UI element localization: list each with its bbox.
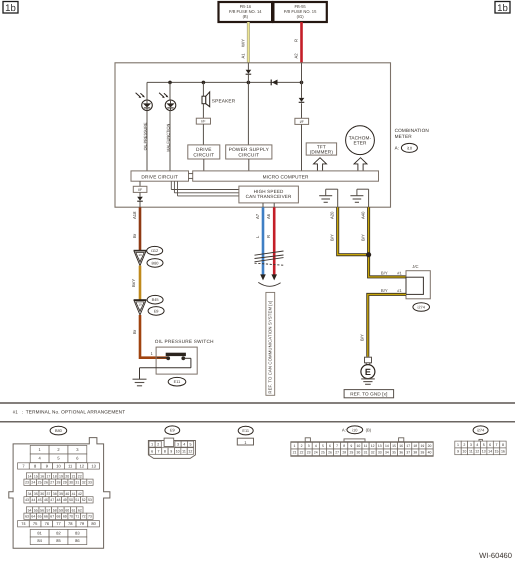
svg-text:3: 3	[470, 443, 472, 447]
link drive circuit to micro computer	[189, 174, 193, 179]
svg-text:16: 16	[40, 474, 44, 478]
svg-text:45: 45	[38, 498, 42, 502]
svg-text:66: 66	[44, 515, 48, 519]
svg-text:HIGH SPEED: HIGH SPEED	[254, 189, 284, 194]
wire speaker to I/F	[202, 104, 204, 119]
svg-text:75: 75	[33, 521, 38, 526]
junction connector box	[406, 271, 430, 299]
oval i274	[413, 303, 430, 312]
svg-text:73: 73	[88, 515, 92, 519]
separator line lower	[0, 421, 515, 423]
node bus-A1	[247, 81, 251, 85]
svg-text:A18: A18	[132, 211, 137, 219]
svg-text:5: 5	[322, 444, 324, 448]
switch ground	[133, 368, 147, 386]
svg-text:48: 48	[57, 498, 61, 502]
wire R (CAN high) pin A6	[273, 207, 276, 274]
svg-text:28: 28	[342, 451, 346, 455]
node bus-speaker	[202, 81, 206, 85]
svg-text:33: 33	[88, 481, 92, 485]
connector i10 pinout	[291, 426, 433, 456]
svg-text:J/C: J/C	[412, 264, 418, 269]
svg-text:5: 5	[190, 442, 192, 446]
svg-text:E11: E11	[242, 428, 249, 433]
twisted pair symbol	[255, 251, 284, 265]
svg-text:DRIVE: DRIVE	[196, 147, 212, 153]
svg-text:68: 68	[57, 515, 61, 519]
wire to junction connector	[369, 255, 406, 277]
svg-text:42: 42	[78, 492, 82, 496]
svg-text:19: 19	[421, 444, 425, 448]
oval B45	[147, 295, 163, 304]
ref to GND box	[344, 390, 394, 398]
wire W/Y from fuse 14 to meter pin A1	[247, 22, 250, 63]
oil pressure warning LED column wire	[146, 82, 148, 170]
svg-text:15: 15	[392, 444, 396, 448]
svg-text:13: 13	[91, 463, 96, 468]
svg-text:R: R	[266, 235, 271, 238]
svg-text:Br: Br	[132, 329, 137, 334]
svg-text:4: 4	[183, 442, 185, 446]
svg-text:WI-60460: WI-60460	[479, 551, 512, 560]
svg-text::: :	[22, 409, 23, 414]
connector B80 pinout	[9, 426, 110, 548]
svg-text:6: 6	[151, 449, 153, 453]
svg-text:#1: #1	[397, 270, 402, 275]
svg-text:44: 44	[31, 498, 35, 502]
svg-text:23: 23	[307, 451, 311, 455]
svg-text:Br/Y: Br/Y	[131, 279, 136, 287]
svg-text:B45: B45	[152, 297, 159, 302]
svg-text:OIL PRESSURE SWITCH: OIL PRESSURE SWITCH	[155, 339, 214, 344]
wire Br pin A18	[139, 207, 142, 250]
internal ground (A40)	[350, 189, 368, 207]
connector E9 pinout	[148, 426, 195, 458]
svg-text:61: 61	[72, 508, 76, 512]
svg-text:69: 69	[63, 515, 67, 519]
power supply circuit box	[226, 145, 272, 159]
svg-text:8: 8	[502, 443, 504, 447]
TFT (DIMMER) box	[306, 143, 336, 155]
arrow micro computer to TFT	[314, 158, 327, 171]
svg-text:21: 21	[293, 451, 297, 455]
svg-text:26: 26	[44, 481, 48, 485]
svg-text:29: 29	[349, 451, 353, 455]
svg-text:REF. TO CAN COMMUNICATION SYST: REF. TO CAN COMMUNICATION SYSTEM [x]	[268, 301, 273, 394]
svg-text:7: 7	[158, 449, 160, 453]
fuse box FB-18 F/B FUSE NO. 14	[219, 2, 273, 22]
svg-text:CIRCUIT: CIRCUIT	[193, 153, 214, 159]
ground terminal E	[361, 357, 375, 384]
svg-text:86: 86	[75, 538, 80, 543]
wires CAN transceiver to pins A7 A6	[263, 203, 274, 207]
svg-text:5: 5	[483, 443, 485, 447]
svg-text:10: 10	[176, 449, 180, 453]
svg-text:E9: E9	[170, 428, 175, 433]
internal ground (A20)	[319, 189, 338, 207]
svg-text:65: 65	[38, 515, 42, 519]
svg-text:16: 16	[399, 444, 403, 448]
connector ref A: i10	[395, 143, 418, 152]
svg-text:A2: A2	[293, 53, 298, 59]
connector E11 pinout	[237, 426, 253, 445]
svg-text:31: 31	[75, 481, 79, 485]
svg-text:79: 79	[80, 521, 85, 526]
svg-text:63: 63	[25, 515, 29, 519]
svg-text:i112: i112	[151, 248, 158, 253]
wire B/Y pin A20	[338, 207, 369, 255]
svg-text:9: 9	[170, 449, 172, 453]
svg-text:19: 19	[59, 474, 63, 478]
malfunction LED	[159, 93, 176, 111]
svg-text:19: 19	[138, 302, 142, 306]
svg-text:i10: i10	[352, 427, 358, 432]
wire drive circuit to micro computer	[203, 159, 205, 171]
svg-text:30: 30	[69, 481, 73, 485]
svg-text:6: 6	[329, 444, 331, 448]
diode D2 on bus (points left)	[271, 80, 277, 86]
wires drive circuit to CAN transceiver	[171, 181, 239, 196]
svg-text:L: L	[255, 235, 260, 238]
svg-text:1: 1	[151, 351, 154, 356]
svg-text:11: 11	[469, 450, 473, 454]
svg-text:REF. TO GND [x]: REF. TO GND [x]	[350, 392, 387, 397]
svg-text:38: 38	[53, 492, 57, 496]
svg-text:47: 47	[50, 498, 54, 502]
svg-text:14: 14	[385, 444, 389, 448]
svg-text:E11: E11	[174, 379, 181, 384]
svg-text:E9: E9	[154, 308, 159, 313]
svg-text:B/Y: B/Y	[360, 334, 365, 341]
svg-text:9: 9	[457, 450, 459, 454]
wire Br/Y	[139, 266, 142, 300]
connector i274 pinout	[455, 426, 506, 455]
svg-text:12: 12	[371, 444, 375, 448]
svg-text:64: 64	[31, 515, 35, 519]
svg-text:A1: A1	[240, 53, 245, 59]
svg-text:34: 34	[28, 492, 32, 496]
arrowhead A7	[260, 274, 266, 280]
svg-text:B80: B80	[55, 428, 63, 433]
oval B80	[147, 259, 163, 268]
svg-text:3: 3	[308, 444, 310, 448]
svg-text:A7: A7	[255, 213, 260, 219]
svg-text:7: 7	[336, 444, 338, 448]
svg-text:32: 32	[371, 451, 375, 455]
svg-text:COMBINATION: COMBINATION	[395, 128, 429, 133]
svg-text:(DIMMER): (DIMMER)	[310, 150, 334, 155]
svg-text:25: 25	[321, 451, 325, 455]
svg-text:10: 10	[462, 450, 466, 454]
svg-text:80: 80	[91, 521, 96, 526]
interface I/F box (speaker)	[196, 118, 210, 124]
svg-text:20: 20	[65, 474, 69, 478]
oval E11	[168, 377, 186, 386]
svg-text:POWER SUPPLY: POWER SUPPLY	[229, 147, 270, 153]
svg-text:8: 8	[343, 444, 345, 448]
svg-text:34: 34	[385, 451, 389, 455]
svg-text:55: 55	[34, 508, 38, 512]
svg-text:12: 12	[188, 449, 192, 453]
svg-text:1: 1	[294, 444, 296, 448]
svg-text:(IG): (IG)	[297, 14, 305, 19]
svg-text:81: 81	[37, 531, 42, 536]
svg-text:67: 67	[50, 515, 54, 519]
svg-text:15: 15	[495, 450, 499, 454]
drive circuit box	[188, 145, 220, 159]
svg-text:77: 77	[56, 521, 61, 526]
svg-text:37: 37	[46, 492, 50, 496]
svg-text:A20: A20	[330, 211, 335, 219]
interface I/F box (output)	[133, 186, 147, 192]
diode D3 on A2 column	[299, 98, 305, 102]
wire L (CAN low) pin A7	[262, 207, 265, 274]
svg-text:11: 11	[364, 444, 368, 448]
high speed CAN transceiver box	[239, 186, 299, 203]
wire diode to I/F	[301, 103, 303, 118]
svg-text:39: 39	[421, 451, 425, 455]
svg-text:METER: METER	[395, 134, 413, 139]
svg-text:Br: Br	[132, 233, 137, 238]
svg-text:6: 6	[489, 443, 491, 447]
arrowhead A6	[271, 274, 277, 280]
svg-text:MALFUNCTION: MALFUNCTION	[165, 124, 170, 152]
svg-text:12: 12	[475, 450, 479, 454]
svg-text:E: E	[365, 367, 371, 377]
svg-text:15: 15	[34, 474, 38, 478]
svg-text:56: 56	[40, 508, 44, 512]
ref to CAN box	[266, 292, 275, 395]
svg-text:39: 39	[59, 492, 63, 496]
svg-text:A6: A6	[266, 213, 271, 219]
svg-text:1: 1	[151, 442, 153, 446]
svg-text:A:: A:	[342, 427, 346, 432]
svg-text:19: 19	[138, 253, 142, 257]
svg-text:13: 13	[378, 444, 382, 448]
separator line upper	[0, 402, 515, 404]
svg-text:52: 52	[82, 498, 86, 502]
svg-text:CIRCUIT: CIRCUIT	[238, 153, 259, 159]
page label 1b top-right	[495, 2, 510, 14]
svg-text:35: 35	[34, 492, 38, 496]
svg-text:(B): (B)	[243, 14, 249, 19]
svg-text:40: 40	[65, 492, 69, 496]
wire R from fuse 15 to meter pin A2	[300, 22, 303, 63]
svg-text:10: 10	[56, 463, 61, 468]
micro computer box	[193, 171, 379, 181]
svg-text:40: 40	[428, 451, 432, 455]
svg-text:24: 24	[31, 481, 35, 485]
svg-text:31: 31	[364, 451, 368, 455]
svg-text:78: 78	[68, 521, 73, 526]
svg-text:71: 71	[75, 515, 79, 519]
svg-text:35: 35	[392, 451, 396, 455]
svg-text:76: 76	[45, 521, 50, 526]
node bus-LED2	[168, 81, 172, 85]
svg-text:72: 72	[82, 515, 86, 519]
svg-text:37: 37	[406, 451, 410, 455]
svg-text:14: 14	[488, 450, 492, 454]
diode D1 on A1 column	[246, 63, 252, 83]
svg-text:82: 82	[56, 531, 61, 536]
svg-text:A40: A40	[361, 211, 366, 219]
node bus-A2	[300, 81, 304, 85]
svg-text:32: 32	[82, 481, 86, 485]
svg-text:22: 22	[78, 474, 82, 478]
svg-text:49: 49	[63, 498, 67, 502]
wire from junction connector	[368, 294, 406, 356]
svg-text:38: 38	[413, 451, 417, 455]
svg-text:4: 4	[315, 444, 317, 448]
svg-text:83: 83	[75, 531, 80, 536]
svg-text:51: 51	[75, 498, 79, 502]
oil pressure LED	[136, 93, 153, 111]
svg-text:9: 9	[350, 444, 352, 448]
label COMBINATION METER	[395, 128, 429, 139]
svg-text:1b: 1b	[5, 3, 16, 14]
oval i112	[147, 246, 163, 255]
svg-text:TFT: TFT	[317, 144, 326, 149]
svg-text:ETER: ETER	[353, 141, 367, 146]
svg-text:58: 58	[53, 508, 57, 512]
svg-text:60: 60	[65, 508, 69, 512]
svg-text:#1: #1	[397, 288, 402, 293]
svg-text:3: 3	[177, 442, 179, 446]
svg-text:14: 14	[28, 474, 32, 478]
wire I/F to drive circuit	[202, 124, 204, 145]
drive circuit box (lower)	[131, 171, 189, 181]
svg-text:i10: i10	[407, 145, 413, 150]
svg-text:10: 10	[357, 444, 361, 448]
svg-text:41: 41	[72, 492, 76, 496]
interface I/F box (A2)	[295, 118, 309, 124]
svg-text:62: 62	[78, 508, 82, 512]
wire A1 bus to power supply circuit	[247, 82, 249, 144]
svg-text:SPEAKER: SPEAKER	[212, 98, 236, 103]
svg-text:25: 25	[38, 481, 42, 485]
tachometer	[346, 126, 375, 155]
svg-text:70: 70	[69, 515, 73, 519]
svg-text:B/Y: B/Y	[381, 270, 388, 275]
svg-text:2: 2	[157, 442, 159, 446]
svg-text:i274: i274	[477, 428, 485, 433]
svg-text:17: 17	[406, 444, 410, 448]
continuation arc	[258, 282, 280, 286]
svg-text:R: R	[293, 39, 298, 42]
svg-text:B/Y: B/Y	[361, 234, 366, 241]
legend note	[13, 409, 125, 414]
svg-text:CAN TRANSCEIVER: CAN TRANSCEIVER	[246, 194, 292, 199]
svg-text:57: 57	[46, 508, 50, 512]
svg-text:A:: A:	[395, 146, 399, 151]
svg-text:43: 43	[25, 498, 29, 502]
oval E9	[148, 307, 164, 316]
svg-text:2: 2	[301, 444, 303, 448]
svg-text:17: 17	[46, 474, 50, 478]
svg-text:36: 36	[40, 492, 44, 496]
svg-text:2: 2	[463, 443, 465, 447]
wire Br to oil pressure switch	[140, 315, 168, 358]
svg-text:B/Y: B/Y	[381, 288, 388, 293]
svg-text:74: 74	[21, 521, 26, 526]
svg-text:29: 29	[63, 481, 67, 485]
svg-text:18: 18	[413, 444, 417, 448]
svg-text:(B): (B)	[366, 427, 372, 432]
svg-text:TERMINAL No. OPTIONAL ARRANGEM: TERMINAL No. OPTIONAL ARRANGEMENT	[26, 409, 125, 414]
malfunction indicator LED column wire	[169, 82, 171, 170]
speaker column wire	[202, 82, 204, 96]
svg-text:20: 20	[428, 444, 432, 448]
page label 1b top-left	[3, 2, 18, 14]
svg-text:28: 28	[57, 481, 61, 485]
speaker	[202, 92, 210, 107]
svg-text:i274: i274	[418, 305, 426, 310]
wire A2 column	[301, 63, 303, 98]
combination meter box	[115, 63, 391, 207]
oil pressure switch contacts	[140, 353, 191, 368]
svg-text:8: 8	[164, 449, 166, 453]
oil pressure switch box	[156, 347, 197, 374]
connector B45/E9	[134, 300, 147, 315]
svg-text:30: 30	[357, 451, 361, 455]
diode D4 below I/F	[137, 192, 143, 207]
svg-text:TACHOM-: TACHOM-	[349, 135, 372, 140]
svg-text:59: 59	[59, 508, 63, 512]
connector i112/B80	[134, 250, 147, 265]
wire I/F to micro computer	[301, 124, 303, 170]
wire B/Y pin A40	[367, 207, 370, 255]
wire drive circuit to I/F	[139, 181, 141, 186]
svg-text:16: 16	[501, 450, 505, 454]
svg-text:13: 13	[482, 450, 486, 454]
internal supply bus wire	[147, 81, 302, 83]
svg-text:27: 27	[335, 451, 339, 455]
svg-text:W/Y: W/Y	[240, 39, 245, 47]
svg-text:24: 24	[314, 451, 318, 455]
svg-text:18: 18	[53, 474, 57, 478]
svg-text:#1: #1	[13, 409, 19, 414]
wire power supply circuit to micro computer	[248, 159, 250, 171]
svg-text:4: 4	[476, 443, 478, 447]
svg-text:26: 26	[328, 451, 332, 455]
svg-text:22: 22	[300, 451, 304, 455]
svg-text:B80: B80	[152, 260, 160, 265]
svg-text:12: 12	[80, 463, 85, 468]
svg-text:50: 50	[69, 498, 73, 502]
svg-text:27: 27	[50, 481, 54, 485]
svg-text:23: 23	[25, 481, 29, 485]
svg-text:1: 1	[457, 443, 459, 447]
svg-text:33: 33	[378, 451, 382, 455]
svg-text:53: 53	[88, 498, 92, 502]
svg-text:54: 54	[28, 508, 32, 512]
svg-text:7: 7	[496, 443, 498, 447]
svg-text:OIL PRESSURE: OIL PRESSURE	[143, 122, 147, 150]
svg-text:85: 85	[56, 538, 61, 543]
fuse box FB-55 F/B FUSE NO. 15	[273, 2, 326, 22]
svg-text:DRIVE CIRCUIT: DRIVE CIRCUIT	[141, 174, 178, 179]
svg-text:36: 36	[399, 451, 403, 455]
svg-text:B/Y: B/Y	[330, 234, 335, 241]
arrow micro computer to tachometer	[354, 158, 367, 171]
svg-text:21: 21	[72, 474, 76, 478]
junction node	[366, 252, 371, 257]
svg-text:MICRO COMPUTER: MICRO COMPUTER	[263, 174, 309, 179]
svg-text:1b: 1b	[497, 3, 508, 14]
svg-text:84: 84	[37, 538, 42, 543]
svg-text:46: 46	[44, 498, 48, 502]
svg-text:11: 11	[182, 449, 186, 453]
